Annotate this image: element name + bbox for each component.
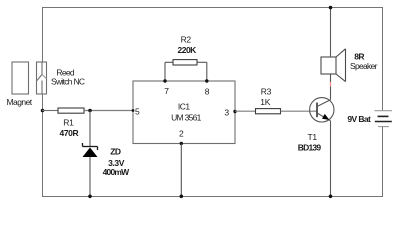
wire right rail lower (battery to bottom rail) <box>382 127 384 197</box>
reed switch S1 NC <box>37 62 47 94</box>
svg-text:ZD: ZD <box>110 147 121 157</box>
svg-text:1K: 1K <box>260 97 270 107</box>
svg-text:8: 8 <box>205 87 210 97</box>
wire bottom rail <box>42 196 383 198</box>
pin 2 label <box>179 129 184 139</box>
label R1 470R <box>60 117 79 138</box>
wire R2 left lead <box>165 62 173 81</box>
node pin 2 junction <box>180 142 183 145</box>
node junction at left rail / R1 <box>41 109 45 113</box>
label R2 220K <box>178 34 198 55</box>
wire R3 to transistor base <box>281 110 317 112</box>
pin 7 label <box>164 86 169 96</box>
pin 3 label <box>224 108 229 118</box>
svg-text:7: 7 <box>164 86 169 96</box>
svg-text:Speaker: Speaker <box>350 61 378 71</box>
pin 8 label <box>205 87 210 97</box>
svg-text:UM 3561: UM 3561 <box>171 113 202 123</box>
svg-text:2: 2 <box>179 129 184 139</box>
label IC1 UM 3561 <box>171 102 202 123</box>
wire emitter to bottom rail <box>330 121 332 197</box>
svg-text:R1: R1 <box>63 117 74 127</box>
wire zener top lead <box>89 111 91 147</box>
svg-text:220K: 220K <box>178 45 198 55</box>
node pin 8 junction <box>205 79 208 82</box>
label T1 BD139 <box>298 132 322 152</box>
svg-text:470R: 470R <box>60 128 79 138</box>
svg-text:R2: R2 <box>181 34 192 44</box>
svg-text:Switch NC: Switch NC <box>51 77 85 87</box>
svg-text:400mW: 400mW <box>103 167 131 177</box>
wire R1 left lead <box>42 110 58 112</box>
label Reed Switch NC <box>51 68 85 87</box>
label 8R Speaker <box>350 52 378 71</box>
battery B1 9V <box>375 111 393 127</box>
wire R2 right lead <box>197 62 207 81</box>
node pin 7 junction <box>163 79 166 82</box>
label 9V Bat <box>347 114 371 124</box>
wire pin 2 to bottom rail <box>180 144 182 197</box>
svg-text:3: 3 <box>224 108 229 118</box>
resistor R3 1K <box>256 109 281 114</box>
wire R1 right lead to IC pin5 <box>84 110 133 112</box>
op-amp IC1 UM3561 box <box>133 81 235 144</box>
svg-text:8R: 8R <box>354 52 364 62</box>
resistor R2 220K <box>173 60 197 65</box>
wire speaker to top rail <box>330 8 332 58</box>
resistor R1 470R <box>58 108 84 113</box>
wire right rail upper (top rail to battery) <box>382 7 384 111</box>
speaker LS1 <box>321 49 346 82</box>
pin 5 label <box>135 107 140 117</box>
wire collector to speaker <box>330 74 332 100</box>
node pin 3 junction <box>233 110 236 113</box>
transistor T1 BD139 <box>310 98 334 122</box>
wire zener bottom lead <box>89 157 91 197</box>
magnet <box>12 62 29 94</box>
label R3 1K <box>260 87 271 107</box>
zener diode ZD 3.3V <box>83 143 98 157</box>
wire left rail lower (reed switch to bottom rail) <box>42 94 44 197</box>
svg-text:IC1: IC1 <box>178 102 191 112</box>
node pin 5 junction <box>132 109 135 112</box>
svg-text:T1: T1 <box>308 132 318 142</box>
label ZD 3.3V 400mW <box>103 147 131 177</box>
wire pin 3 to R3 <box>235 110 256 112</box>
node junction zener / bottom rail <box>88 195 92 199</box>
svg-text:5: 5 <box>135 107 140 117</box>
svg-text:9V Bat: 9V Bat <box>347 114 371 124</box>
wire top rail <box>42 7 383 9</box>
wire left rail upper (top rail to reed switch) <box>42 7 44 62</box>
node junction pin2 wire / bottom rail <box>180 195 184 199</box>
node junction R1 / zener / pin5 <box>88 109 92 113</box>
svg-text:Magnet: Magnet <box>7 97 33 107</box>
svg-text:BD139: BD139 <box>298 142 322 152</box>
label Magnet <box>7 97 33 107</box>
svg-text:R3: R3 <box>261 87 272 97</box>
node junction emitter wire / bottom rail <box>329 195 333 199</box>
node junction speaker wire / top rail <box>329 6 333 10</box>
